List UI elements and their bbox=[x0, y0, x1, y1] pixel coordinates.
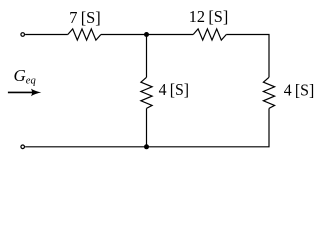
resistor 4 [S] middle bbox=[141, 77, 152, 108]
wire top-middle bbox=[101, 34, 193, 36]
wire top-right bbox=[226, 35, 269, 78]
svg-text:7 [S]: 7 [S] bbox=[69, 8, 101, 27]
node junction bottom bbox=[144, 144, 149, 149]
resistor 12 [S] bbox=[193, 29, 226, 40]
arrow G_eq bbox=[8, 91, 36, 93]
svg-text:Geq: Geq bbox=[14, 66, 36, 87]
terminal top-left bbox=[21, 33, 25, 37]
wire middle vertical bottom bbox=[146, 108, 148, 146]
resistor 7 [S] bbox=[68, 29, 101, 40]
svg-text:4 [S]: 4 [S] bbox=[284, 80, 315, 99]
terminal bottom-left bbox=[21, 145, 25, 149]
wire right-bottom bbox=[25, 108, 269, 146]
wire middle vertical top bbox=[146, 35, 148, 78]
node junction top bbox=[144, 32, 149, 37]
svg-text:4 [S]: 4 [S] bbox=[159, 80, 190, 99]
resistor 4 [S] right bbox=[263, 77, 274, 108]
svg-text:12 [S]: 12 [S] bbox=[189, 7, 229, 26]
wire top-left bbox=[25, 34, 68, 36]
